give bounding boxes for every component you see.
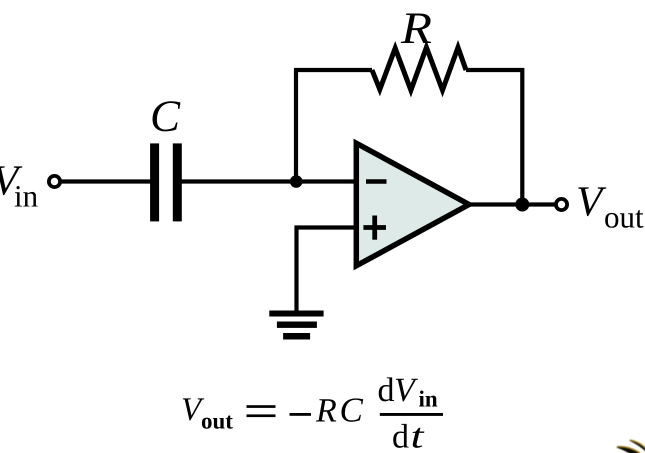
plus symbol [363,225,386,230]
svg-text:d: d [378,372,395,409]
wire: feedback right vertical [520,68,524,205]
wire: Vin terminal to capacitor [61,179,151,183]
capacitor C1 [150,143,182,221]
svg-text:R: R [400,3,432,53]
svg-text:in: in [419,387,438,412]
svg-text:t: t [411,417,426,453]
svg-text:in: in [14,179,39,214]
terminal circle Vin [49,176,60,187]
wire: non-inverting input [297,228,358,312]
svg-text:C: C [340,391,364,430]
fraction bar [380,413,443,416]
wire: op-amp output [467,202,555,206]
equals sign [247,405,276,408]
terminal circle Vout [556,199,567,210]
node: junction at inverting input [290,175,303,188]
label Vout [576,178,644,234]
ground [269,311,323,340]
svg-text:C: C [150,91,181,141]
node: output junction [515,198,529,212]
wire: top left horizontal to resistor [294,68,372,72]
wire: feedback left vertical [294,70,298,182]
op-amp U1 [356,143,469,266]
minus symbol [366,179,387,184]
label Vin [0,158,39,214]
svg-text:out: out [201,409,233,434]
svg-text:out: out [604,199,644,234]
svg-text:d: d [392,419,409,453]
resistor R1 zigzag [372,47,466,90]
decorative golden leaf strokes bottom right [617,440,645,453]
formula: Vout = -RC dVin/dt [181,372,443,453]
minus sign [290,413,312,416]
wire: resistor to right vertical [466,68,524,72]
wire: capacitor to op-amp inverting input [181,179,357,183]
svg-text:R: R [315,393,337,430]
